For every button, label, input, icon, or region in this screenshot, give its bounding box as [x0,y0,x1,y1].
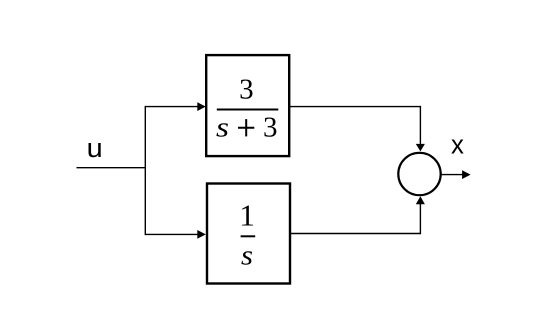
wire bottom block to summer [290,204,421,234]
svg-text:s: s [241,240,253,272]
svg-text:s: s [216,112,229,144]
wire to bottom block [145,233,198,235]
summing junction [398,153,440,195]
wire output x [442,174,464,176]
block G2 1/s [207,184,290,284]
node branch point [144,106,146,235]
svg-text:1: 1 [239,197,255,232]
svg-text:3: 3 [239,74,254,106]
svg-text:3: 3 [263,112,278,144]
svg-text:u: u [87,133,103,163]
block G1 3/(s+3) [206,55,289,156]
wire top block to summer [289,107,420,145]
wire to top block [145,106,198,108]
svg-text:x: x [451,130,464,160]
wire input u [77,167,146,169]
